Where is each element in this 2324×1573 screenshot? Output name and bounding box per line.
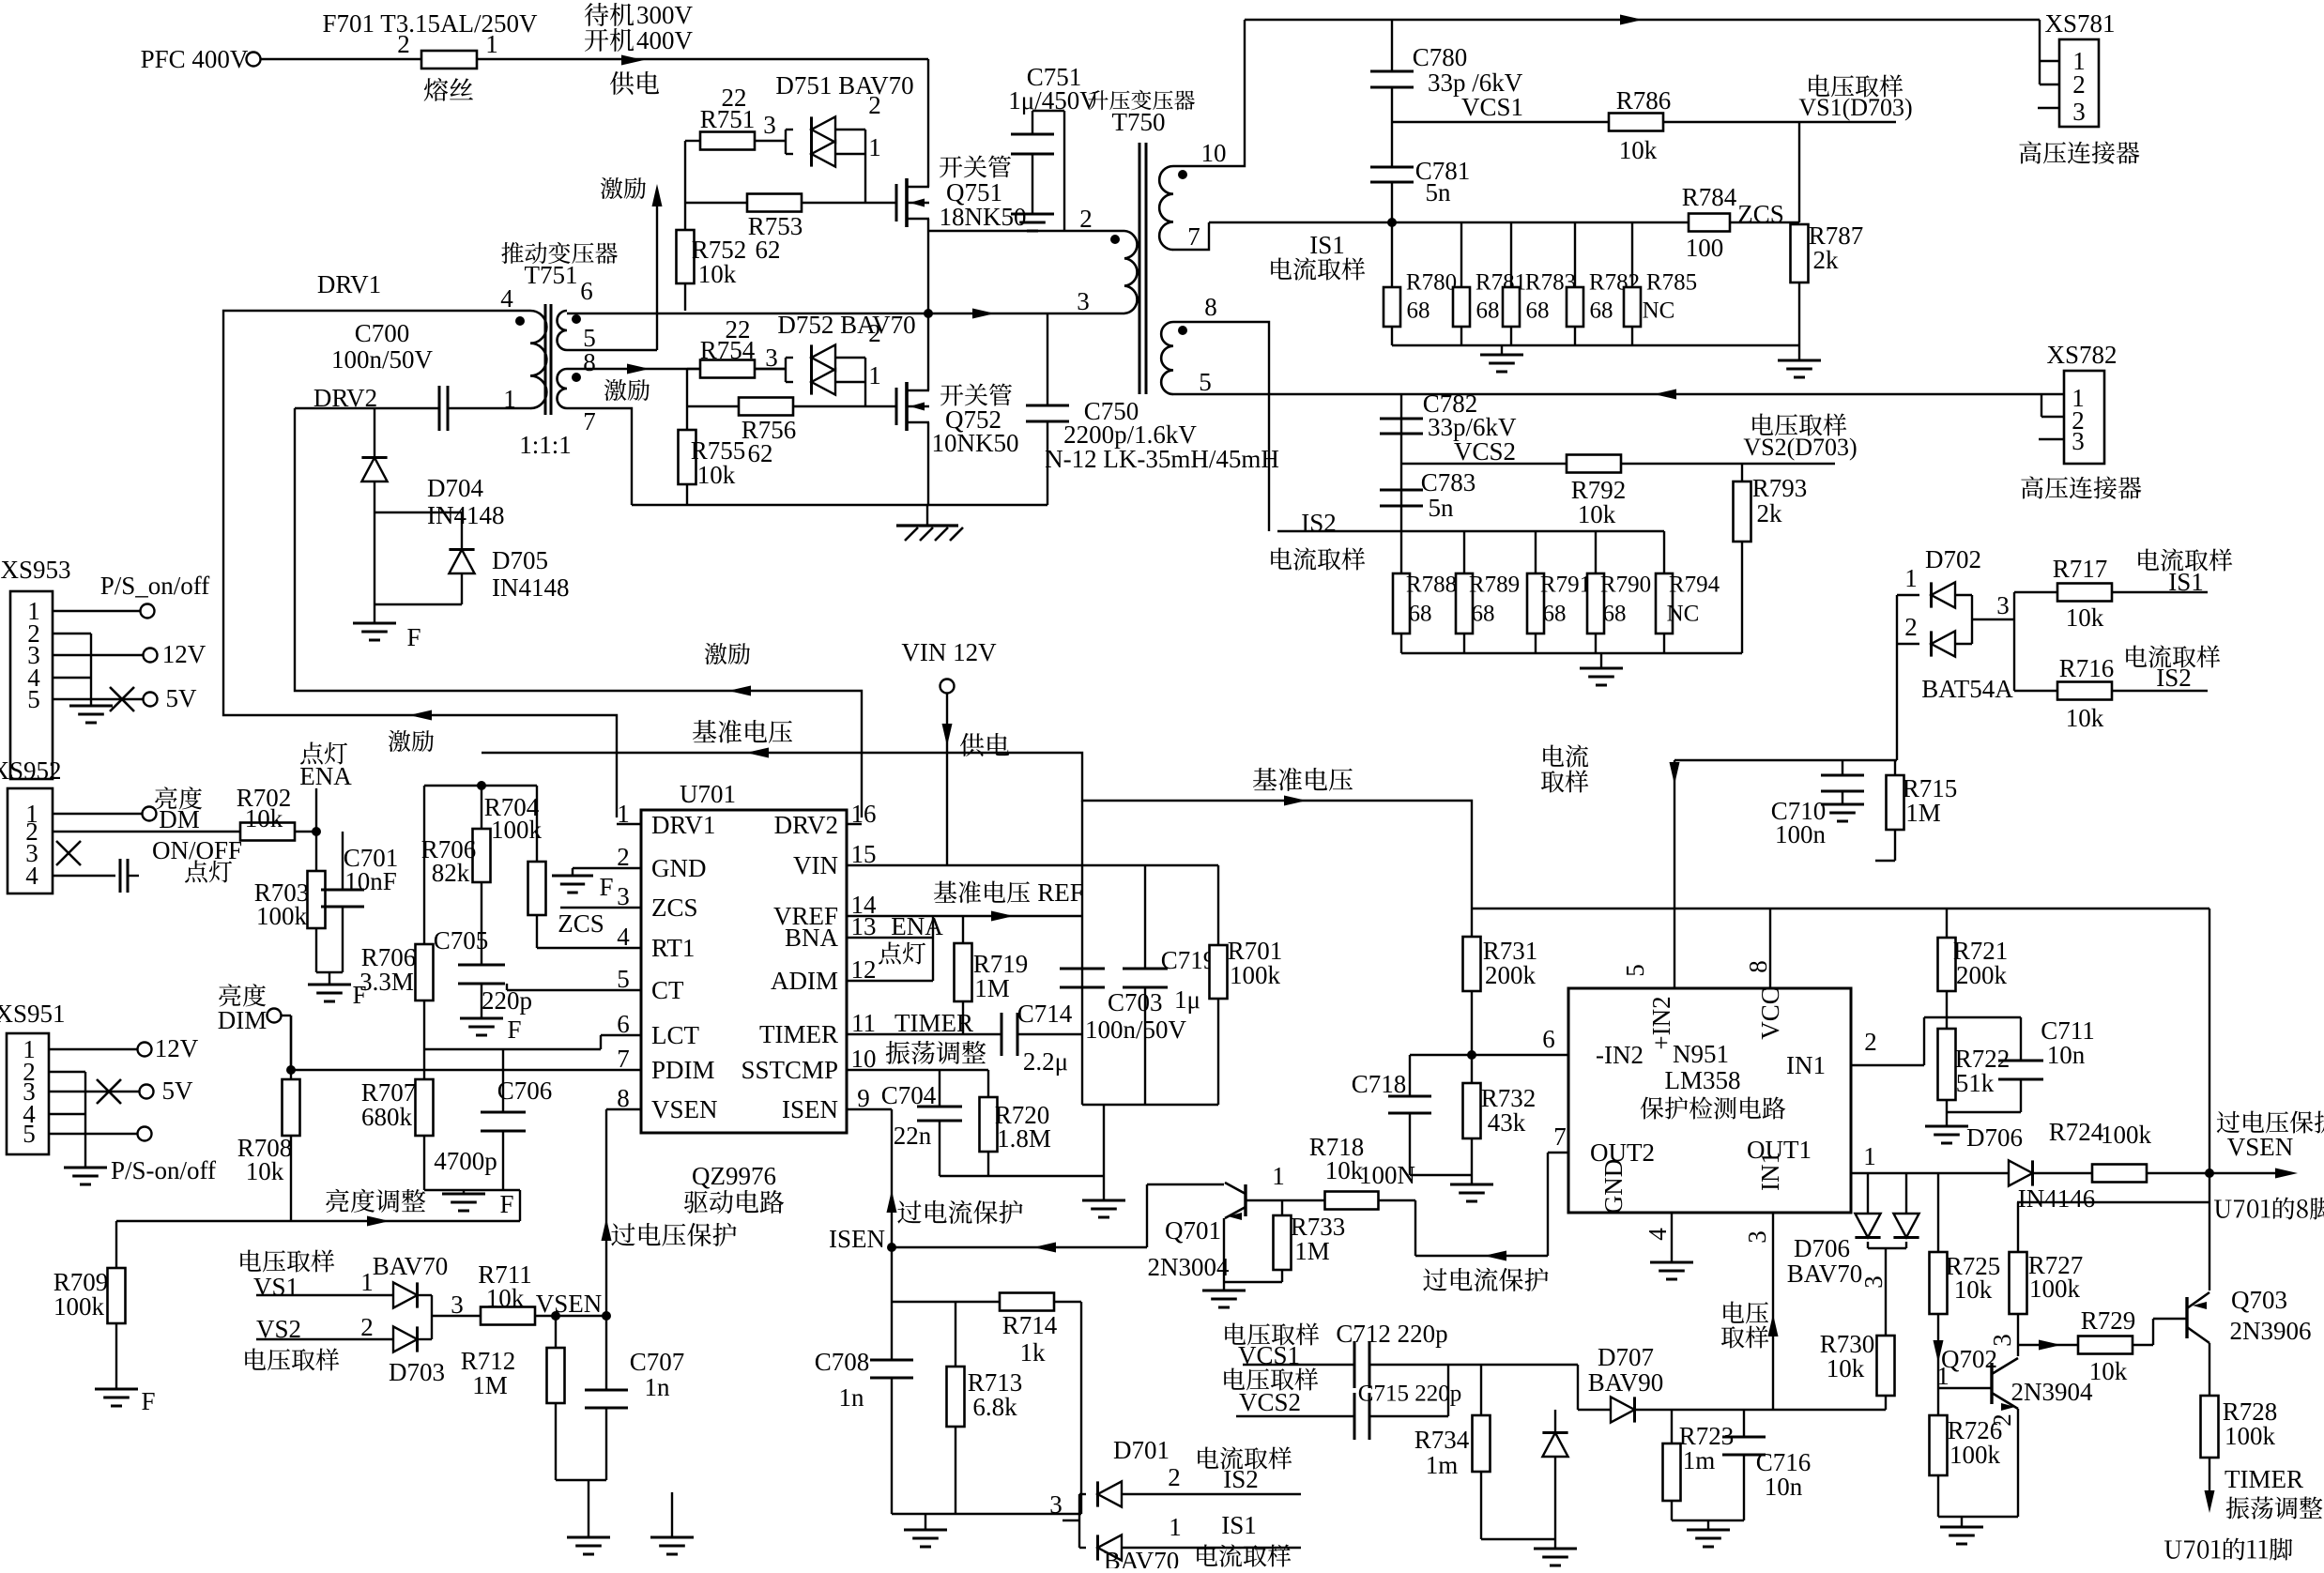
svg-text:100k: 100k xyxy=(491,816,543,844)
svg-text:10k: 10k xyxy=(2089,1357,2128,1385)
svg-text:VSEN: VSEN xyxy=(651,1095,718,1123)
svg-text:100n/50V: 100n/50V xyxy=(331,345,434,374)
svg-text:3: 3 xyxy=(617,882,630,910)
svg-text:68: 68 xyxy=(1543,602,1567,627)
svg-text:C715 220p: C715 220p xyxy=(1358,1382,1461,1407)
svg-text:Q702: Q702 xyxy=(1941,1345,1997,1373)
svg-text:GND: GND xyxy=(1599,1159,1628,1214)
svg-text:SSTCMP: SSTCMP xyxy=(741,1056,838,1084)
svg-text:R754: R754 xyxy=(700,336,756,364)
svg-text:10: 10 xyxy=(851,1045,877,1073)
svg-text:C704: C704 xyxy=(881,1081,937,1109)
svg-text:R751: R751 xyxy=(700,105,756,133)
svg-text:P/S_on/off: P/S_on/off xyxy=(100,572,210,600)
svg-text:XS952: XS952 xyxy=(0,756,62,785)
svg-text:CT: CT xyxy=(651,976,684,1004)
svg-text:N951: N951 xyxy=(1673,1040,1729,1068)
svg-text:Q703: Q703 xyxy=(2231,1286,2287,1314)
svg-text:R794: R794 xyxy=(1669,573,1720,598)
svg-text:5: 5 xyxy=(27,685,40,713)
svg-text:2: 2 xyxy=(868,91,881,119)
svg-text:C707: C707 xyxy=(630,1348,685,1376)
svg-text:DRV1: DRV1 xyxy=(651,811,715,839)
svg-text:VSEN: VSEN xyxy=(536,1290,603,1318)
svg-text:Q701: Q701 xyxy=(1165,1216,1221,1245)
svg-text:R785: R785 xyxy=(1646,270,1697,296)
svg-text:PDIM: PDIM xyxy=(651,1056,715,1084)
svg-text:10NK50: 10NK50 xyxy=(932,429,1019,457)
svg-text:ENA: ENA xyxy=(299,762,352,790)
svg-text:R791: R791 xyxy=(1540,573,1591,598)
svg-text:7: 7 xyxy=(583,407,596,435)
svg-text:ZCS: ZCS xyxy=(651,893,698,922)
svg-text:T750: T750 xyxy=(1112,108,1166,136)
svg-text:100n/50V: 100n/50V xyxy=(1085,1016,1187,1044)
svg-text:1:1:1: 1:1:1 xyxy=(519,431,572,459)
svg-text:5: 5 xyxy=(23,1120,36,1148)
svg-text:12: 12 xyxy=(851,955,877,984)
svg-text:10k: 10k xyxy=(697,461,736,489)
svg-text:BNA: BNA xyxy=(785,924,839,952)
svg-text:5V: 5V xyxy=(162,1077,194,1105)
svg-text:100k: 100k xyxy=(1230,961,1281,989)
svg-text:T751: T751 xyxy=(525,261,578,289)
svg-text:2: 2 xyxy=(360,1313,374,1341)
svg-text:8: 8 xyxy=(1744,960,1772,973)
svg-text:IN4148: IN4148 xyxy=(427,501,505,529)
svg-text:100k: 100k xyxy=(2029,1275,2081,1303)
svg-text:IS2: IS2 xyxy=(1301,509,1337,537)
svg-text:RT1: RT1 xyxy=(651,934,695,962)
svg-text:5n: 5n xyxy=(1429,494,1455,522)
svg-text:C712 220p: C712 220p xyxy=(1336,1320,1447,1348)
svg-text:C705: C705 xyxy=(434,926,489,954)
svg-text:R780: R780 xyxy=(1406,270,1457,296)
svg-text:10k: 10k xyxy=(698,260,737,288)
svg-text:XS782: XS782 xyxy=(2046,341,2117,369)
svg-text:D704: D704 xyxy=(427,474,483,502)
svg-text:1μ: 1μ xyxy=(1174,985,1200,1014)
svg-text:R788: R788 xyxy=(1406,573,1457,598)
svg-text:10k: 10k xyxy=(1578,500,1616,528)
svg-text:18NK50: 18NK50 xyxy=(940,203,1027,231)
svg-text:1M: 1M xyxy=(1905,799,1941,827)
svg-text:F: F xyxy=(507,1016,521,1044)
svg-text:ADIM: ADIM xyxy=(771,967,838,995)
svg-text:PFC 400V: PFC 400V xyxy=(141,45,249,73)
svg-text:1M: 1M xyxy=(974,974,1010,1002)
svg-text:D703: D703 xyxy=(389,1358,445,1386)
svg-text:4: 4 xyxy=(617,923,630,951)
svg-text:VCS2: VCS2 xyxy=(1454,437,1516,466)
svg-text:2.2μ: 2.2μ xyxy=(1023,1047,1068,1076)
svg-text:3: 3 xyxy=(451,1290,464,1319)
svg-text:5: 5 xyxy=(1199,368,1212,396)
svg-text:2: 2 xyxy=(1904,613,1918,641)
svg-text:R784: R784 xyxy=(1682,183,1737,211)
svg-text:2N3904: 2N3904 xyxy=(2011,1378,2093,1406)
svg-text:R790: R790 xyxy=(1600,573,1651,598)
svg-text:4: 4 xyxy=(25,862,38,890)
svg-text:IN4146: IN4146 xyxy=(2018,1184,2096,1213)
svg-text:IS2: IS2 xyxy=(1223,1465,1259,1493)
svg-text:1: 1 xyxy=(1904,564,1918,592)
svg-text:1: 1 xyxy=(617,800,630,828)
svg-text:3: 3 xyxy=(763,111,776,139)
svg-text:10n: 10n xyxy=(2047,1041,2086,1069)
svg-text:7: 7 xyxy=(1187,222,1200,251)
svg-text:400V: 400V xyxy=(636,26,694,54)
svg-text:100k: 100k xyxy=(2225,1422,2276,1450)
svg-text:VS1(D703): VS1(D703) xyxy=(1798,94,1912,121)
svg-text:4: 4 xyxy=(500,284,513,313)
svg-text:3: 3 xyxy=(1996,591,2010,619)
svg-text:VCS1: VCS1 xyxy=(1238,1341,1300,1369)
svg-text:6: 6 xyxy=(580,277,593,305)
svg-text:OUT1: OUT1 xyxy=(1747,1136,1812,1164)
svg-text:16: 16 xyxy=(851,800,877,828)
svg-text:10k: 10k xyxy=(246,1157,284,1185)
svg-text:TIMER: TIMER xyxy=(2225,1465,2303,1493)
svg-text:11: 11 xyxy=(851,1009,876,1037)
svg-text:6: 6 xyxy=(1542,1025,1555,1053)
svg-text:1: 1 xyxy=(1863,1142,1876,1170)
svg-text:12V: 12V xyxy=(162,640,206,668)
svg-text:XS781: XS781 xyxy=(2044,9,2115,38)
svg-text:R734: R734 xyxy=(1414,1426,1470,1454)
svg-text:F: F xyxy=(499,1190,513,1218)
svg-text:2: 2 xyxy=(617,843,630,871)
svg-text:C706: C706 xyxy=(497,1077,553,1105)
svg-text:3: 3 xyxy=(2072,98,2086,126)
svg-text:VCS2: VCS2 xyxy=(1239,1388,1301,1416)
svg-text:LM358: LM358 xyxy=(1665,1066,1741,1094)
svg-text:1n: 1n xyxy=(839,1383,865,1412)
svg-text:8: 8 xyxy=(617,1084,630,1112)
svg-text:IS1: IS1 xyxy=(1221,1511,1257,1539)
svg-text:XS953: XS953 xyxy=(0,556,70,584)
svg-text:1: 1 xyxy=(503,385,516,413)
svg-text:68: 68 xyxy=(1526,298,1550,324)
svg-text:1m: 1m xyxy=(1426,1451,1459,1479)
svg-text:10k: 10k xyxy=(245,804,283,832)
svg-text:1n: 1n xyxy=(645,1373,671,1401)
svg-text:D707: D707 xyxy=(1598,1343,1654,1371)
svg-text:10k: 10k xyxy=(1325,1156,1364,1184)
svg-text:F: F xyxy=(599,873,613,901)
svg-text:C718: C718 xyxy=(1352,1070,1407,1098)
svg-text:200k: 200k xyxy=(1485,961,1537,989)
svg-text:R717: R717 xyxy=(2053,555,2108,583)
svg-text:10k: 10k xyxy=(2066,603,2104,632)
svg-text:IN1: IN1 xyxy=(1786,1051,1826,1079)
svg-text:BAV70: BAV70 xyxy=(373,1252,449,1280)
svg-text:+IN2: +IN2 xyxy=(1647,996,1675,1049)
svg-text:C783: C783 xyxy=(1421,468,1476,496)
svg-text:F701 T3.15AL/250V: F701 T3.15AL/250V xyxy=(322,9,538,38)
svg-text:1k: 1k xyxy=(1020,1338,1047,1367)
svg-text:IS1: IS1 xyxy=(1309,231,1345,259)
svg-text:BAT54A: BAT54A xyxy=(1921,675,2013,703)
svg-text:2: 2 xyxy=(1168,1463,1181,1491)
svg-text:R714: R714 xyxy=(1002,1311,1058,1339)
svg-text:NC: NC xyxy=(1667,602,1700,627)
svg-text:3.3M: 3.3M xyxy=(359,968,414,996)
svg-text:4700p: 4700p xyxy=(434,1147,497,1175)
svg-text:10k: 10k xyxy=(1827,1354,1865,1382)
svg-text:F: F xyxy=(406,623,420,651)
svg-text:REF: REF xyxy=(1037,878,1084,907)
svg-text:1M: 1M xyxy=(1294,1237,1330,1265)
svg-text:10k: 10k xyxy=(486,1284,525,1312)
svg-text:68: 68 xyxy=(1590,298,1613,324)
svg-text:C714: C714 xyxy=(1017,1000,1073,1028)
svg-text:10k: 10k xyxy=(1954,1275,1993,1304)
svg-text:6: 6 xyxy=(617,1010,630,1038)
svg-text:300V: 300V xyxy=(636,1,694,29)
svg-text:C780: C780 xyxy=(1413,43,1468,71)
svg-text:VIN: VIN xyxy=(793,851,838,879)
svg-text:C703: C703 xyxy=(1108,988,1163,1016)
svg-text:1μ/450V: 1μ/450V xyxy=(1008,86,1098,115)
svg-text:10k: 10k xyxy=(2066,704,2104,732)
svg-text:2: 2 xyxy=(1864,1028,1877,1056)
svg-text:8: 8 xyxy=(1204,293,1217,321)
svg-text:D705: D705 xyxy=(492,546,548,574)
svg-text:ISEN: ISEN xyxy=(782,1095,838,1123)
svg-text:3: 3 xyxy=(1743,1230,1771,1244)
svg-text:NC: NC xyxy=(1643,298,1675,324)
svg-text:U701: U701 xyxy=(680,780,736,808)
svg-text:D702: D702 xyxy=(1925,545,1981,573)
svg-text:XS951: XS951 xyxy=(0,1000,66,1028)
svg-text:3: 3 xyxy=(765,344,778,372)
svg-text:3: 3 xyxy=(1049,1490,1063,1519)
svg-text:1.8M: 1.8M xyxy=(997,1124,1051,1153)
svg-text:5: 5 xyxy=(1621,964,1649,977)
svg-text:C708: C708 xyxy=(815,1348,870,1376)
svg-text:1m: 1m xyxy=(1683,1446,1716,1474)
svg-text:2: 2 xyxy=(2072,70,2086,99)
svg-text:D706: D706 xyxy=(1966,1123,2023,1152)
svg-text:N-12 LK-35mH/45mH: N-12 LK-35mH/45mH xyxy=(1045,445,1279,473)
svg-text:1: 1 xyxy=(1272,1162,1285,1190)
svg-text:6.8k: 6.8k xyxy=(972,1393,1017,1421)
svg-text:680k: 680k xyxy=(361,1103,413,1131)
svg-text:TIMER: TIMER xyxy=(894,1009,973,1037)
svg-text:2: 2 xyxy=(868,319,881,347)
svg-text:C719: C719 xyxy=(1161,946,1216,974)
svg-text:BAV90: BAV90 xyxy=(1588,1368,1664,1397)
svg-text:68: 68 xyxy=(1407,298,1430,324)
svg-text:DRV2: DRV2 xyxy=(774,811,838,839)
svg-text:10k: 10k xyxy=(1619,136,1658,164)
svg-text:2N3004: 2N3004 xyxy=(1148,1253,1230,1281)
svg-text:F: F xyxy=(141,1387,155,1415)
svg-text:68: 68 xyxy=(1603,602,1627,627)
svg-text:ISEN: ISEN xyxy=(829,1225,885,1253)
svg-text:GND: GND xyxy=(651,854,707,882)
svg-text:R789: R789 xyxy=(1469,573,1520,598)
svg-text:R793: R793 xyxy=(1752,474,1808,502)
svg-text:R724: R724 xyxy=(2049,1118,2104,1146)
svg-text:R786: R786 xyxy=(1616,86,1672,115)
svg-text:12V: 12V xyxy=(155,1034,199,1062)
svg-text:1: 1 xyxy=(868,133,881,161)
svg-text:P/S-on/off: P/S-on/off xyxy=(111,1156,216,1184)
svg-text:2N3906: 2N3906 xyxy=(2230,1317,2312,1345)
svg-text:D706: D706 xyxy=(1794,1234,1850,1262)
svg-text:51k: 51k xyxy=(1956,1069,1995,1097)
svg-text:1M: 1M xyxy=(472,1371,508,1399)
svg-text:3: 3 xyxy=(1988,1334,2016,1347)
svg-text:9: 9 xyxy=(857,1084,870,1112)
svg-text:2k: 2k xyxy=(1757,499,1783,527)
svg-text:100: 100 xyxy=(1686,234,1724,262)
svg-text:1: 1 xyxy=(868,361,881,389)
svg-text:VIN 12V: VIN 12V xyxy=(901,638,997,666)
svg-text:ZCS: ZCS xyxy=(1737,200,1784,228)
svg-text:IS1: IS1 xyxy=(2168,568,2204,596)
svg-text:3: 3 xyxy=(2072,427,2085,455)
svg-text:100N: 100N xyxy=(1359,1161,1415,1189)
svg-text:TIMER: TIMER xyxy=(759,1020,838,1048)
svg-text:D701: D701 xyxy=(1113,1436,1170,1464)
svg-text:R716: R716 xyxy=(2059,654,2115,682)
svg-text:4: 4 xyxy=(1644,1228,1672,1241)
svg-text:3: 3 xyxy=(1077,287,1090,315)
svg-text:D752 BAV70: D752 BAV70 xyxy=(777,311,915,339)
svg-text:QZ9976: QZ9976 xyxy=(692,1162,776,1190)
svg-text:LCT: LCT xyxy=(651,1021,700,1049)
svg-text:D751 BAV70: D751 BAV70 xyxy=(775,71,913,99)
svg-text:2: 2 xyxy=(1079,205,1093,233)
svg-text:1: 1 xyxy=(1169,1513,1182,1541)
svg-text:68: 68 xyxy=(1409,602,1432,627)
svg-text:10: 10 xyxy=(1201,139,1227,167)
svg-text:200k: 200k xyxy=(1956,961,2008,989)
svg-text:68: 68 xyxy=(1472,602,1495,627)
svg-text:8: 8 xyxy=(583,348,596,376)
svg-text:ZCS: ZCS xyxy=(558,909,604,938)
svg-text:R729: R729 xyxy=(2081,1306,2136,1335)
svg-text:7: 7 xyxy=(1553,1122,1567,1151)
svg-text:68: 68 xyxy=(1476,298,1500,324)
svg-text:5: 5 xyxy=(617,965,630,993)
svg-text:ON/OFF: ON/OFF xyxy=(152,836,242,864)
svg-text:100k: 100k xyxy=(2101,1121,2152,1149)
svg-text:15: 15 xyxy=(851,840,877,868)
svg-text:100k: 100k xyxy=(54,1292,105,1321)
svg-text:10n: 10n xyxy=(1765,1473,1803,1501)
svg-text:7: 7 xyxy=(617,1045,630,1073)
svg-text:10nF: 10nF xyxy=(344,867,397,895)
svg-text:DM: DM xyxy=(159,805,200,833)
svg-text:IN4148: IN4148 xyxy=(492,573,570,602)
svg-text:1: 1 xyxy=(1936,1362,1949,1390)
svg-text:-IN2: -IN2 xyxy=(1596,1041,1644,1069)
svg-text:5V: 5V xyxy=(166,684,198,712)
svg-text:5n: 5n xyxy=(1426,178,1452,206)
svg-text:BAV70: BAV70 xyxy=(1787,1260,1863,1288)
svg-text:1: 1 xyxy=(360,1268,374,1296)
svg-text:VCS1: VCS1 xyxy=(1461,93,1523,121)
svg-text:IS2: IS2 xyxy=(2156,664,2192,692)
svg-text:62: 62 xyxy=(748,439,773,467)
svg-text:43k: 43k xyxy=(1488,1108,1526,1137)
svg-text:C700: C700 xyxy=(355,319,410,347)
svg-text:DRV1: DRV1 xyxy=(317,270,381,298)
svg-text:BAV70: BAV70 xyxy=(1104,1547,1180,1568)
svg-text:82k: 82k xyxy=(432,859,470,887)
svg-text:VS1: VS1 xyxy=(253,1273,298,1301)
svg-text:100k: 100k xyxy=(256,902,308,930)
svg-text:3: 3 xyxy=(1859,1275,1888,1289)
svg-text:62: 62 xyxy=(756,236,781,264)
svg-text:VS2(D703): VS2(D703) xyxy=(1743,434,1857,461)
svg-text:2k: 2k xyxy=(1813,246,1840,274)
svg-text:VCC: VCC xyxy=(1756,987,1784,1040)
svg-text:VSEN: VSEN xyxy=(2227,1133,2294,1161)
svg-text:100k: 100k xyxy=(1949,1441,2001,1469)
svg-text:100n: 100n xyxy=(1775,820,1827,848)
svg-text:22n: 22n xyxy=(894,1122,932,1150)
svg-text:DIM: DIM xyxy=(218,1006,268,1034)
